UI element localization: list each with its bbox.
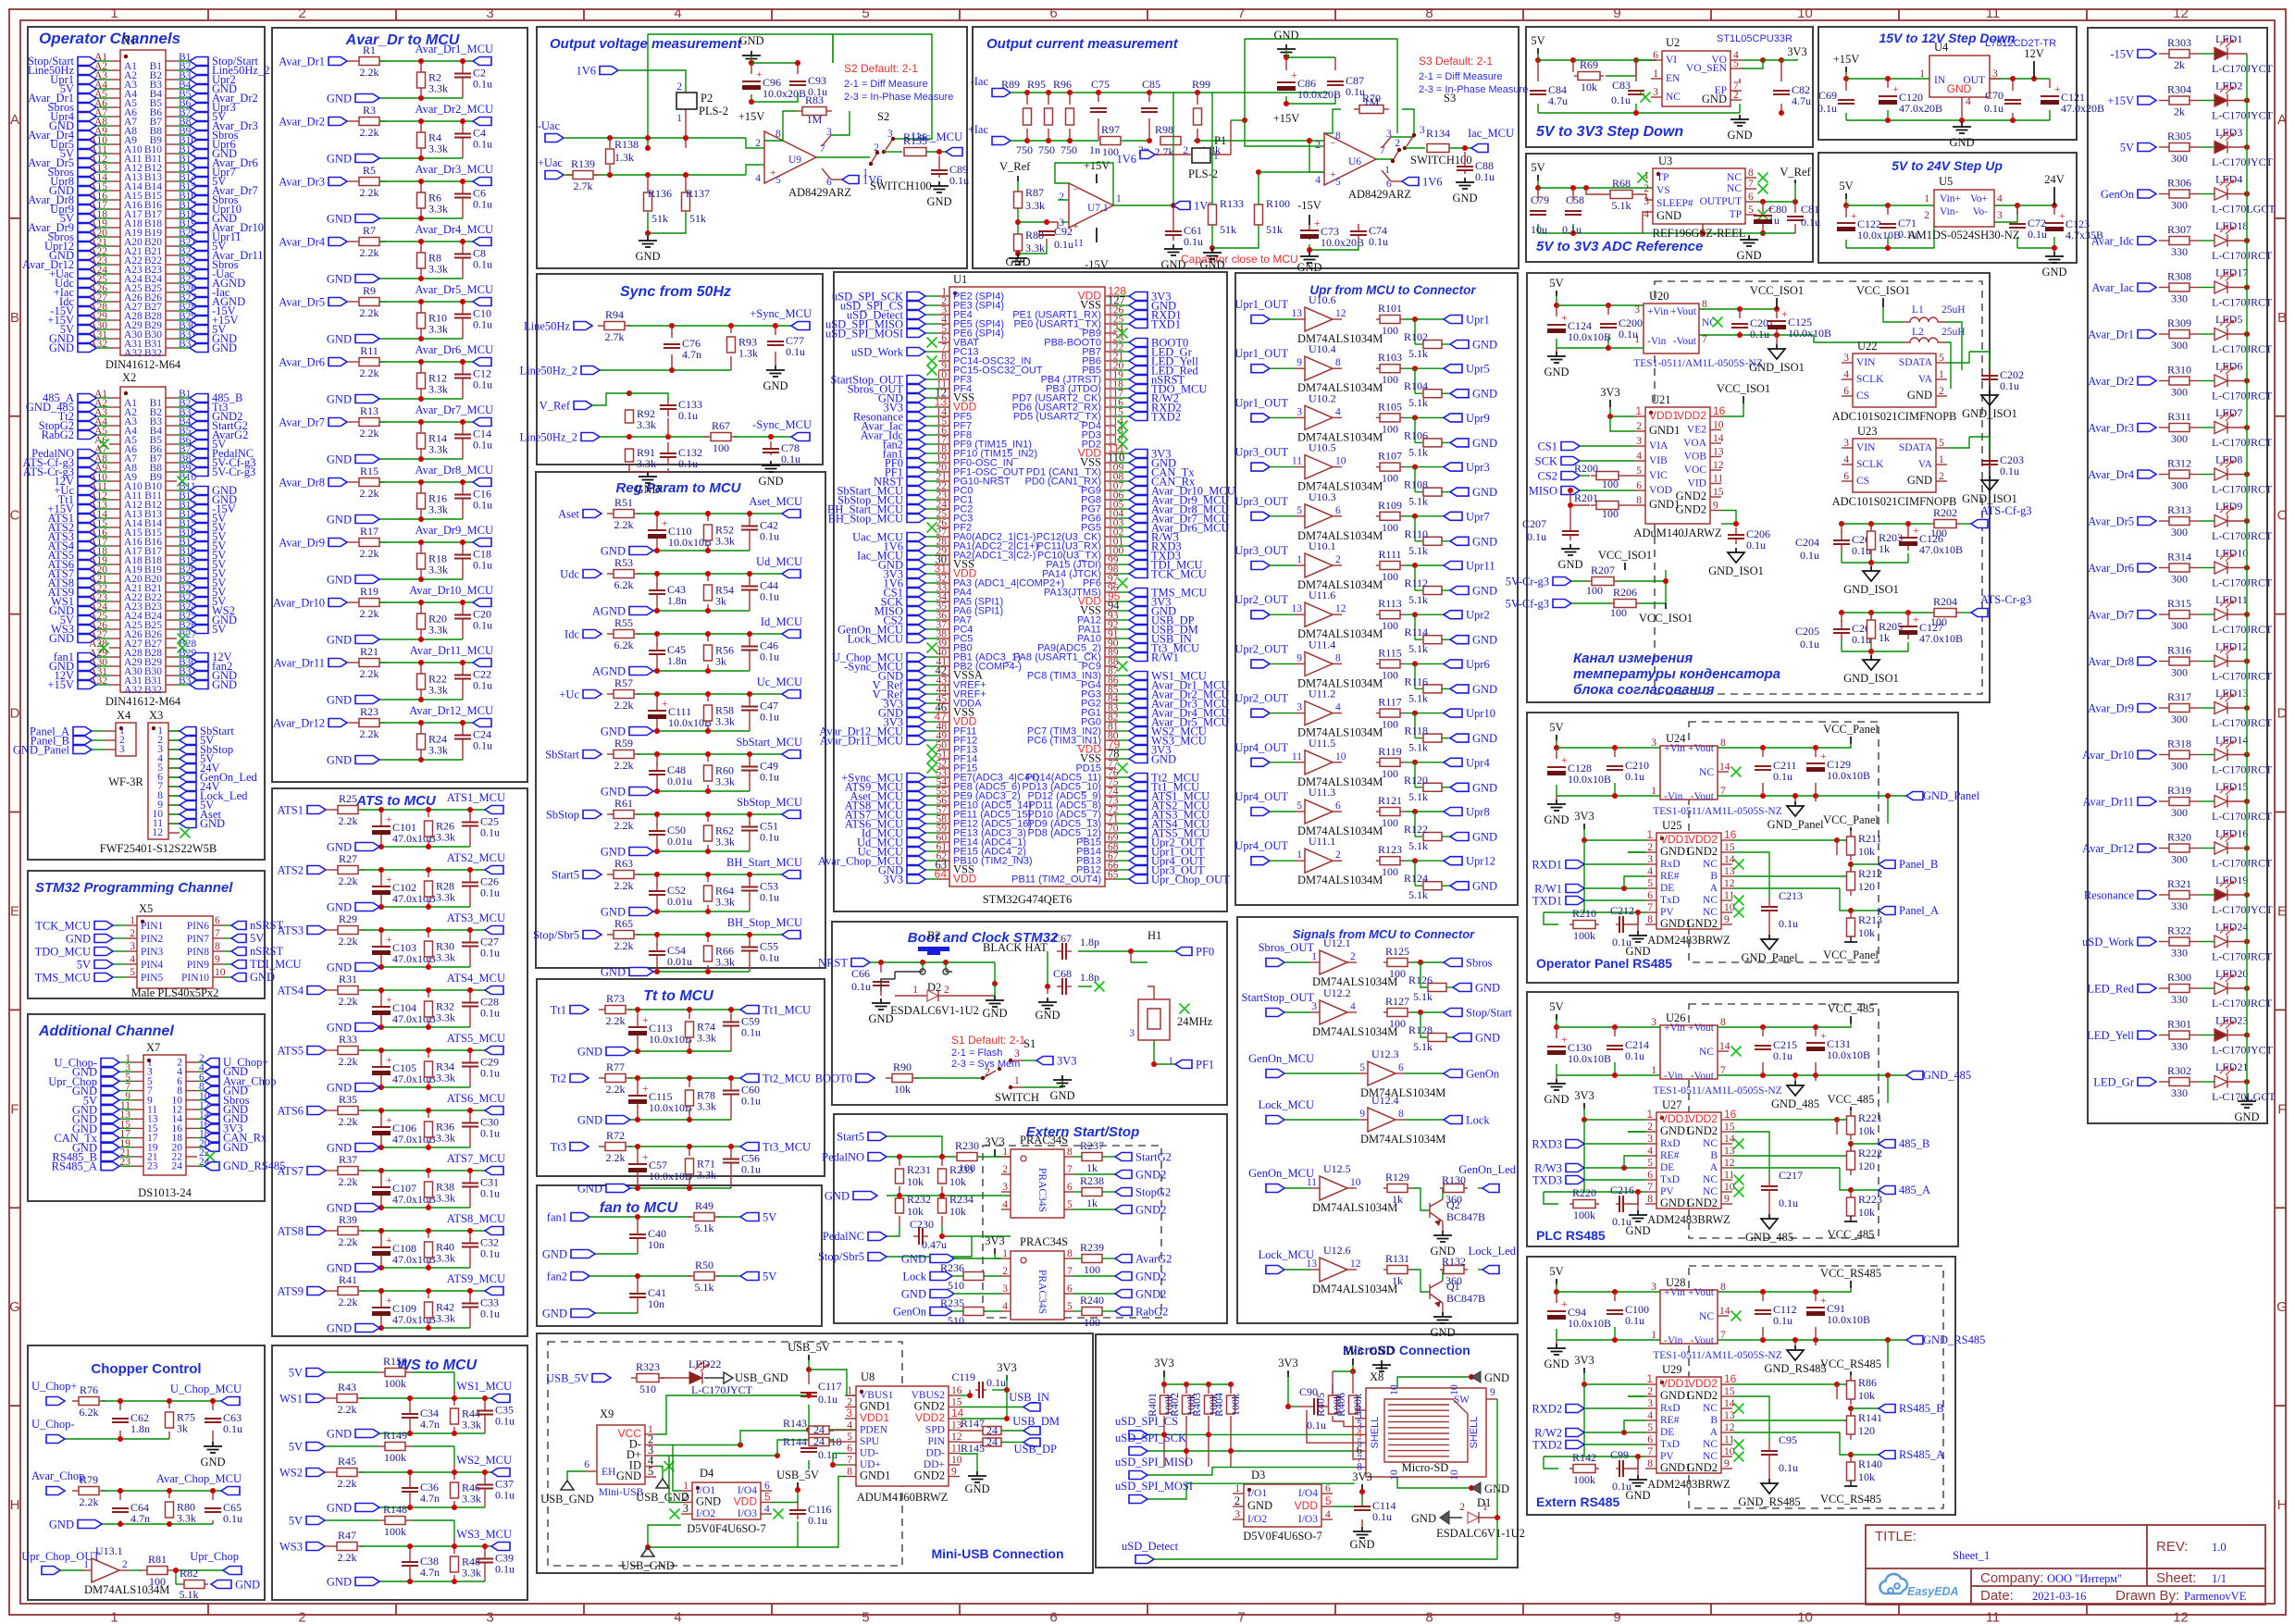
svg-text:ATS6: ATS6 <box>278 1105 304 1118</box>
svg-text:VA: VA <box>1918 374 1933 385</box>
capacitor C59 <box>730 1018 732 1023</box>
ground arrow GND_Panel <box>1787 801 1804 816</box>
resistor R140 <box>1847 1462 1855 1481</box>
resistor R315 <box>2169 611 2190 619</box>
wire d4 <box>673 1445 681 1492</box>
svg-text:4.7n: 4.7n <box>682 348 701 361</box>
net port Avar_Dr2 <box>329 118 347 126</box>
svg-text:0.1u: 0.1u <box>480 1247 500 1260</box>
wire <box>925 323 938 325</box>
svg-text:0.1u: 0.1u <box>741 1095 761 1108</box>
svg-text:2k: 2k <box>2174 58 2185 71</box>
svg-text:Upr2_OUT: Upr2_OUT <box>1234 692 1288 705</box>
svg-text:U10.5: U10.5 <box>1309 441 1336 454</box>
svg-text:VCC_ISO1: VCC_ISO1 <box>1598 549 1652 562</box>
wire <box>347 600 473 642</box>
svg-text:5V: 5V <box>212 623 226 636</box>
svg-text:R/W1: R/W1 <box>1151 651 1179 664</box>
svg-text:R81: R81 <box>148 1553 167 1566</box>
pin 22 <box>186 1156 197 1158</box>
svg-text:1: 1 <box>1635 404 1642 417</box>
svg-text:R25: R25 <box>339 792 357 805</box>
pin 3 PE4 <box>938 314 949 316</box>
capacitor C32 <box>469 1239 471 1244</box>
svg-text:R148: R148 <box>383 1503 407 1516</box>
pin PIN4 <box>126 963 137 965</box>
svg-text:USB_5V: USB_5V <box>788 1341 830 1354</box>
svg-text:3: 3 <box>486 6 493 21</box>
net port Tt3 <box>190 403 208 412</box>
pin 113 PD3 <box>1105 434 1116 436</box>
ground <box>1740 235 1758 246</box>
svg-text:R29: R29 <box>339 912 357 925</box>
svg-text:GND: GND <box>926 195 951 208</box>
wire <box>177 508 190 510</box>
resistor R42 <box>425 1302 433 1318</box>
svg-text:L-C170JRCT: L-C170JRCT <box>2212 529 2273 542</box>
svg-text:X5: X5 <box>139 902 153 915</box>
svg-text:0.1u: 0.1u <box>760 590 779 603</box>
capacitor C214 <box>1614 1045 1616 1047</box>
wire <box>168 776 180 778</box>
wire <box>1116 869 1129 871</box>
svg-text:10n: 10n <box>648 1238 664 1251</box>
wire <box>96 601 109 602</box>
wire <box>2200 800 2214 802</box>
svg-text:ADM2483BRWZ: ADM2483BRWZ <box>1647 1478 1731 1491</box>
svg-text:CS1: CS1 <box>1537 440 1557 453</box>
wire <box>96 291 109 293</box>
capacitor C4 <box>462 130 464 134</box>
svg-text:ATS2: ATS2 <box>278 864 304 877</box>
svg-text:U12.2: U12.2 <box>1323 986 1351 999</box>
wire <box>177 106 190 108</box>
pin B26 <box>166 291 177 293</box>
wire <box>1154 1558 1497 1560</box>
svg-text:5: 5 <box>862 6 869 21</box>
svg-text:U9: U9 <box>788 155 801 166</box>
svg-text:VCC_485: VCC_485 <box>1828 1228 1875 1241</box>
pin 75 PD13 (ADC5_10) <box>1105 786 1116 787</box>
wire <box>925 434 938 436</box>
svg-text:PLS-2: PLS-2 <box>699 105 728 118</box>
svg-text:X4: X4 <box>117 709 131 722</box>
svg-text:7: 7 <box>1748 179 1754 190</box>
svg-text:BH_Stop_MCU: BH_Stop_MCU <box>727 916 802 929</box>
svg-text:Avar_Dr5: Avar_Dr5 <box>279 296 325 309</box>
svg-text:1: 1 <box>1651 786 1656 797</box>
wire <box>1116 452 1129 454</box>
svg-text:0.47u: 0.47u <box>922 1238 947 1251</box>
svg-text:GND2: GND2 <box>1135 1169 1166 1182</box>
net port SbStart_MCU <box>782 750 800 759</box>
svg-text:10k: 10k <box>1858 845 1875 858</box>
svg-text:9: 9 <box>1724 1458 1730 1469</box>
resistor R213 <box>1847 918 1855 936</box>
resistor R28 <box>425 881 433 897</box>
svg-text:PIN3: PIN3 <box>141 947 164 958</box>
pin 39 PB0 <box>938 647 949 649</box>
svg-text:R140: R140 <box>1858 1457 1882 1470</box>
net port ATS8 <box>307 1227 326 1235</box>
resistor R200 <box>1596 472 1619 480</box>
svg-text:4: 4 <box>674 6 681 21</box>
net port Avar_Dr3 <box>190 122 208 130</box>
wire <box>600 323 791 373</box>
net port Avar_Dr5_MCU <box>1129 718 1147 726</box>
wire <box>925 804 938 806</box>
resistor R120 <box>1423 783 1442 791</box>
net port Upr1 <box>78 76 96 84</box>
svg-text:5V-Cr-g3: 5V-Cr-g3 <box>212 465 255 478</box>
svg-text:U11.5: U11.5 <box>1309 737 1335 750</box>
svg-text:GenOn_MCU: GenOn_MCU <box>1248 1167 1314 1180</box>
pin 100 PC10(U3_TX) <box>1105 554 1116 556</box>
net port CS1 <box>907 589 925 597</box>
svg-text:5.1k: 5.1k <box>1612 199 1631 212</box>
svg-text:TCK_MCU: TCK_MCU <box>35 920 91 933</box>
svg-text:Start5: Start5 <box>837 1131 864 1144</box>
svg-text:7: 7 <box>1237 6 1245 21</box>
net port Upr2_OUT <box>1251 709 1270 717</box>
pin 11 <box>168 823 180 824</box>
svg-text:1: 1 <box>1939 454 1944 465</box>
capacitor C211 <box>1762 765 1764 767</box>
svg-text:GND_ISO1: GND_ISO1 <box>1962 407 2017 420</box>
svg-text:GND: GND <box>1475 1032 1500 1045</box>
svg-text:12: 12 <box>1335 308 1346 319</box>
svg-text:U27: U27 <box>1662 1098 1682 1111</box>
svg-text:R201: R201 <box>1574 491 1598 504</box>
net port 5V <box>190 579 208 588</box>
net port TDO_MCU <box>1129 385 1147 393</box>
wire <box>119 1090 132 1092</box>
net port MISO <box>1561 487 1580 495</box>
pin 90 PA9(ADC5_2) <box>1105 647 1116 649</box>
svg-text:GND: GND <box>964 1482 989 1495</box>
svg-text:Upr3_OUT: Upr3_OUT <box>1234 495 1288 508</box>
net port 485_A <box>1851 1189 1879 1191</box>
pin B5 <box>166 97 177 99</box>
svg-text:3.3k: 3.3k <box>436 831 455 844</box>
capacitor C122 <box>1845 222 1847 224</box>
svg-text:+: + <box>1820 1031 1827 1042</box>
capacitor C87 <box>1334 81 1336 82</box>
svg-text:1k: 1k <box>1879 542 1890 555</box>
wire <box>2200 146 2214 148</box>
svg-text:12: 12 <box>2173 6 2189 21</box>
resistor R88 <box>1014 234 1023 251</box>
pin A20 <box>109 573 120 575</box>
ground <box>1353 1527 1371 1538</box>
svg-text:15: 15 <box>1724 842 1735 853</box>
svg-text:P1: P1 <box>1214 134 1226 147</box>
wire <box>177 217 190 219</box>
capacitor C47 <box>749 702 751 707</box>
wire <box>1116 758 1129 760</box>
svg-text:3.3k: 3.3k <box>697 1100 716 1113</box>
svg-text:R95: R95 <box>1027 78 1046 91</box>
pin 29 PA2(ADC1_3|C2-) <box>938 554 949 556</box>
svg-text:330: 330 <box>2171 899 2188 912</box>
net port GND <box>78 663 96 671</box>
svg-text:CS: CS <box>1856 476 1869 487</box>
pin 51 PF14 <box>938 758 949 760</box>
net port Avar_Dr9 <box>78 224 96 232</box>
wire <box>925 314 938 316</box>
net port GND c <box>930 1255 954 1263</box>
pin B6 <box>166 443 177 445</box>
svg-text:5V: 5V <box>77 959 91 972</box>
svg-text:10: 10 <box>1335 751 1346 762</box>
svg-text:LED17: LED17 <box>2215 267 2248 279</box>
wire <box>168 804 180 806</box>
wire <box>1116 351 1129 353</box>
svg-text:R83: R83 <box>805 93 824 106</box>
svg-text:300: 300 <box>2171 806 2188 819</box>
svg-text:R86: R86 <box>1858 1376 1877 1389</box>
net port Upr_Chop_OUT <box>42 1567 60 1575</box>
resistor R50 <box>694 1272 714 1281</box>
resistor R33 <box>338 1047 358 1055</box>
svg-text:1.8n: 1.8n <box>667 594 687 607</box>
wire <box>177 199 190 201</box>
resistor R27 <box>338 866 358 874</box>
capacitor C16 <box>462 490 464 495</box>
svg-text:C58: C58 <box>1566 193 1584 206</box>
svg-text:0.1u: 0.1u <box>1800 549 1819 562</box>
pin 117 PD7 (USART2_CK) <box>1105 397 1116 399</box>
svg-text:USB_GND: USB_GND <box>735 1371 788 1384</box>
svg-text:NC: NC <box>1666 92 1681 103</box>
pin 4 <box>168 758 180 760</box>
net port GND <box>355 215 379 223</box>
svg-text:D: D <box>10 706 20 722</box>
net port BH_Stop_MCU <box>782 931 800 939</box>
net port GND <box>1450 783 1469 791</box>
wire <box>1116 610 1129 612</box>
resistor R129 <box>1387 1184 1408 1193</box>
pin A10 <box>109 143 120 145</box>
section box 15V to 12V Step Down <box>1818 27 2077 140</box>
svg-text:GND: GND <box>1472 535 1497 548</box>
net port SbStart_MCU <box>907 487 925 495</box>
net port RS485_A <box>101 1162 119 1171</box>
wire <box>119 1109 132 1110</box>
svg-text:5: 5 <box>130 967 135 978</box>
svg-text:100: 100 <box>149 1575 166 1588</box>
svg-text:R316: R316 <box>2167 644 2191 657</box>
net port GND <box>355 155 379 163</box>
svg-text:VCC_RS485: VCC_RS485 <box>1820 1267 1881 1280</box>
svg-text:V_Ref: V_Ref <box>999 160 1031 173</box>
svg-text:ATS8_MCU: ATS8_MCU <box>447 1212 505 1225</box>
svg-text:U4: U4 <box>1934 41 1949 54</box>
svg-text:Ud_MCU: Ud_MCU <box>756 555 802 568</box>
svg-text:GND: GND <box>1472 880 1497 893</box>
net port Panel_A <box>73 727 92 736</box>
pin 105 PG7 <box>1105 508 1116 510</box>
svg-text:R109: R109 <box>1378 499 1402 512</box>
svg-text:6: 6 <box>1636 480 1642 491</box>
net port Sbros <box>205 1096 219 1104</box>
svg-text:VA: VA <box>1918 459 1933 470</box>
pin B20 <box>166 236 177 238</box>
svg-text:GND: GND <box>696 1495 721 1508</box>
svg-text:DE: DE <box>1660 883 1674 894</box>
svg-text:V_Ref: V_Ref <box>540 400 571 413</box>
capacitor C93 <box>797 81 799 82</box>
wire <box>177 273 190 275</box>
wire <box>96 619 109 621</box>
net port SbStart <box>180 727 196 736</box>
svg-text:Avar_Dr11_MCU: Avar_Dr11_MCU <box>820 735 903 748</box>
net port 5V <box>180 737 196 745</box>
net port 1V6 <box>907 542 925 551</box>
svg-text:Avar_Dr10_MCU: Avar_Dr10_MCU <box>409 584 493 597</box>
net port RXD3 <box>1566 1140 1584 1148</box>
net port Upr4 <box>78 113 96 121</box>
svg-text:GND: GND <box>758 475 783 488</box>
svg-text:+: + <box>642 1015 649 1026</box>
no-connect <box>178 477 188 487</box>
wire <box>325 1372 491 1436</box>
svg-text:0.1u: 0.1u <box>1984 102 2003 115</box>
wire <box>925 554 938 556</box>
pin A14 <box>109 517 120 519</box>
svg-text:R102: R102 <box>1404 330 1428 343</box>
svg-text:360: 360 <box>1445 1274 1462 1287</box>
wire <box>2200 427 2214 428</box>
svg-text:+: + <box>1561 313 1568 324</box>
svg-text:Vin-: Vin- <box>1940 206 1959 217</box>
svg-text:R45: R45 <box>338 1455 356 1468</box>
svg-text:Aset_MCU: Aset_MCU <box>749 495 802 508</box>
pin 17 <box>132 1137 143 1139</box>
svg-text:R202: R202 <box>1933 506 1957 519</box>
svg-text:S1: S1 <box>1023 1037 1036 1050</box>
no-connect <box>1118 578 1128 589</box>
wire <box>1116 323 1129 325</box>
svg-text:5V-Cf-g3: 5V-Cf-g3 <box>1506 598 1549 611</box>
svg-text:GND: GND <box>1544 366 1569 378</box>
svg-text:7: 7 <box>1067 1266 1073 1277</box>
svg-text:LED21: LED21 <box>2215 1060 2248 1073</box>
svg-text:Upr3_OUT: Upr3_OUT <box>1234 446 1288 459</box>
net port 485_B <box>190 394 208 403</box>
pin A22 <box>109 254 120 256</box>
net port Upr6 <box>1444 660 1462 668</box>
svg-text:-Vout: -Vout <box>1691 1071 1715 1082</box>
svg-text:GND: GND <box>1544 813 1569 826</box>
pin 14 <box>186 1118 197 1120</box>
svg-text:USB_5V: USB_5V <box>546 1372 589 1385</box>
pin B19 <box>166 564 177 565</box>
svg-text:GND: GND <box>616 1469 641 1482</box>
svg-text:uSD_Work: uSD_Work <box>851 346 904 359</box>
pin A9 <box>109 134 120 136</box>
svg-text:R317: R317 <box>2167 690 2191 703</box>
svg-text:C212: C212 <box>1610 904 1634 917</box>
svg-text:R99: R99 <box>1192 78 1210 91</box>
svg-text:5.1k: 5.1k <box>1408 347 1428 360</box>
resistor R401 <box>1160 1395 1169 1414</box>
svg-text:1k: 1k <box>1086 1196 1098 1209</box>
svg-text:NC: NC <box>1699 1311 1714 1322</box>
svg-text:1: 1 <box>1002 1248 1008 1259</box>
wire <box>1116 739 1129 741</box>
wire <box>1307 135 1414 181</box>
wire <box>1284 1072 1358 1074</box>
net port U_Chop+ <box>46 1397 65 1406</box>
wire <box>177 134 190 136</box>
wire <box>626 1144 740 1191</box>
capacitor C76 <box>671 343 673 345</box>
net port Upr10 <box>1444 709 1462 717</box>
svg-text:10k: 10k <box>894 1083 911 1096</box>
svg-text:NC: NC <box>1727 172 1742 183</box>
wire adm right <box>1732 1382 1851 1455</box>
net port AGND <box>190 298 208 306</box>
net port Lock_Led <box>180 792 196 800</box>
svg-text:1: 1 <box>1213 151 1219 162</box>
svg-text:C216: C216 <box>1610 1184 1634 1196</box>
svg-text:2k: 2k <box>2174 105 2185 118</box>
svg-text:TxD: TxD <box>1660 895 1680 906</box>
wire <box>925 850 938 852</box>
svg-text:11: 11 <box>1724 1434 1734 1445</box>
svg-text:Additional Channel: Additional Channel <box>38 1023 174 1039</box>
net port fan1 <box>907 450 925 458</box>
net port Sbros <box>78 104 96 112</box>
capacitor C63 <box>212 1418 214 1419</box>
svg-text:3k: 3k <box>715 655 726 668</box>
svg-text:5: 5 <box>1647 1158 1653 1169</box>
net port Tt1_MCU <box>1129 783 1147 791</box>
svg-text:120: 120 <box>1858 880 1875 893</box>
svg-text:1: 1 <box>1919 68 1925 80</box>
net port Upr2_OUT <box>1129 838 1147 847</box>
svg-text:R222: R222 <box>1858 1147 1882 1159</box>
svg-text:L-C170JYCT: L-C170JYCT <box>2212 1044 2274 1057</box>
wire <box>96 656 109 658</box>
svg-text:L2: L2 <box>1912 327 1924 338</box>
ground USB_GND x9 pin5 <box>656 1479 669 1488</box>
wire <box>347 720 473 762</box>
net port GND <box>101 1124 119 1133</box>
svg-text:5: 5 <box>1296 800 1302 812</box>
wire <box>119 1071 132 1072</box>
wire <box>96 254 109 256</box>
ground arrow GND_ISO1 u21 <box>1728 548 1744 563</box>
net port Avar_Dr12 <box>78 261 96 269</box>
svg-text:1.3k: 1.3k <box>738 347 758 360</box>
net port LED_Gr <box>2138 1078 2156 1086</box>
svg-text:GND: GND <box>2234 1110 2259 1123</box>
pin B7 <box>166 452 177 454</box>
pin 116 PD6 (USART2_RX) <box>1105 406 1116 408</box>
svg-text:1: 1 <box>1168 1056 1173 1067</box>
no-connect <box>1118 440 1128 450</box>
net port StopG2 <box>78 422 96 430</box>
svg-text:3V3: 3V3 <box>1154 1357 1174 1370</box>
svg-text:R50: R50 <box>695 1258 713 1271</box>
svg-text:0.1u: 0.1u <box>786 345 805 358</box>
svg-text:Operator Panel RS485: Operator Panel RS485 <box>1536 956 1672 971</box>
net port GND <box>190 496 208 504</box>
svg-text:2: 2 <box>1234 1494 1240 1507</box>
svg-text:9: 9 <box>1296 652 1302 663</box>
